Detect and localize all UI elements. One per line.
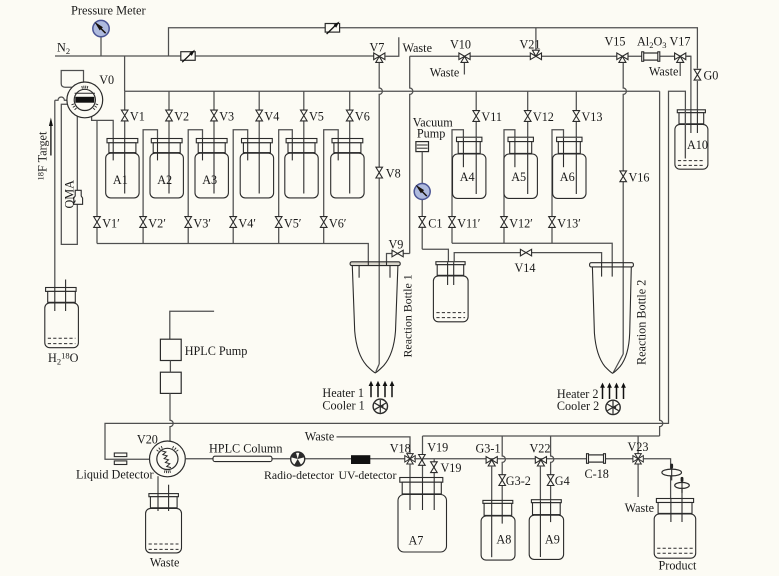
svg-text:Pressure Meter: Pressure Meter	[71, 4, 147, 18]
valve V11	[473, 111, 480, 122]
svg-text:V1: V1	[130, 110, 145, 124]
svg-text:V3: V3	[219, 110, 234, 124]
pressure meter gauge	[100, 37, 102, 56]
svg-text:V11′: V11′	[457, 217, 481, 231]
svg-text:A5: A5	[511, 170, 526, 184]
svg-text:G4: G4	[555, 474, 570, 488]
valve V12	[524, 111, 531, 122]
wire valve rail drop to A7 through V19	[422, 436, 424, 478]
wire bottle A6 tube to valve V13'	[552, 130, 564, 244]
svg-text:HPLC Pump: HPLC Pump	[185, 344, 248, 358]
svg-text:Waste: Waste	[430, 66, 459, 80]
valve V2	[166, 110, 173, 121]
bottle A6	[557, 137, 582, 141]
svg-text:A9: A9	[545, 533, 560, 547]
valve G3-2	[499, 475, 506, 486]
bottle A2	[151, 139, 182, 143]
product bottle	[656, 499, 693, 503]
wire valve V3 drop into bottle A3	[213, 91, 215, 193]
valve V10 with waste vent	[463, 60, 465, 75]
valve V1'	[94, 217, 101, 228]
valve V23 with waste vent	[637, 464, 639, 497]
vacuum pump symbol	[416, 142, 429, 152]
wire bottle A3 tube to valve V3'	[188, 130, 202, 244]
wire bottle A4 tube to valve V4'	[233, 130, 248, 244]
svg-text:V4: V4	[264, 110, 279, 124]
wire valve V13 drop into bottle A6	[575, 91, 577, 194]
valve V18	[405, 456, 415, 462]
valve V3'	[185, 217, 192, 228]
wire bottle A4 tube to valve V11'	[452, 130, 463, 244]
wire V20 to waste bottle	[157, 476, 159, 511]
bottle A4	[457, 137, 482, 141]
wire V' collection manifold to reaction bottle 1	[97, 244, 368, 263]
valve V6	[346, 110, 353, 121]
valve V19 upper	[419, 455, 426, 466]
wire A10 draw tube to V20 feed rail	[105, 91, 685, 459]
wire valve V1 drop into bottle A1	[124, 91, 126, 193]
wire rail drop through G4 to bottle A9	[551, 436, 554, 522]
svg-text:V8: V8	[386, 167, 401, 181]
svg-text:Waste: Waste	[625, 501, 654, 515]
bottle (reagent vial)	[332, 139, 363, 143]
svg-text:V13: V13	[582, 110, 603, 124]
svg-text:V6: V6	[355, 110, 370, 124]
valve V3	[211, 110, 218, 121]
wire V15 stem to V16 and reaction bottle 2	[623, 63, 626, 354]
valve V19 lower	[431, 462, 438, 473]
svg-text:V0: V0	[99, 73, 114, 87]
valve V5	[301, 110, 308, 121]
valve G3-1	[486, 457, 497, 464]
valve V11'	[449, 217, 456, 228]
valve V22	[535, 457, 546, 464]
valve V12'	[501, 217, 508, 228]
waste bottle	[149, 494, 179, 497]
svg-text:A10: A10	[687, 138, 708, 152]
wire V22 to bottle A9	[539, 466, 541, 557]
svg-text:HPLC Column: HPLC Column	[209, 442, 282, 456]
wire vent header line	[410, 55, 691, 57]
svg-text:V20: V20	[137, 432, 158, 446]
valve V9	[392, 250, 403, 257]
reaction bottle 1 vessel	[352, 266, 398, 373]
sterile filter 2 vent	[681, 481, 683, 522]
svg-text:V1′: V1′	[102, 217, 120, 231]
wire trap bottle to V14 to reaction bottle 2	[454, 253, 601, 263]
valve V17 with waste vent	[679, 60, 681, 76]
svg-text:V14: V14	[515, 261, 536, 275]
valve G4	[547, 475, 554, 486]
svg-text:V19: V19	[427, 440, 448, 454]
C-18 cartridge	[588, 455, 604, 462]
wire vacuum line	[421, 152, 423, 250]
wire valve V4 drop into bottle A4	[258, 91, 260, 193]
svg-text:V3′: V3′	[193, 217, 211, 231]
svg-text:V19: V19	[441, 461, 462, 475]
wire V20 to HPLC column line	[185, 458, 404, 460]
svg-text:C1: C1	[428, 216, 442, 230]
valve V13	[573, 111, 580, 122]
wire N2 branch to manifold	[124, 56, 126, 91]
wire V23 top to rail	[637, 436, 639, 454]
wire bottle A5 tube to valve V12'	[504, 130, 515, 244]
svg-text:V5′: V5′	[284, 217, 302, 231]
wire V18 waste line	[337, 437, 411, 454]
svg-text:A8: A8	[496, 533, 511, 547]
valve V15	[617, 53, 628, 60]
rotary valve V20	[150, 441, 186, 477]
bottle A8	[483, 500, 513, 503]
svg-text:G3-2: G3-2	[506, 474, 531, 488]
wire V23 to product bottle	[644, 459, 671, 522]
wire V9 to reaction bottle 1	[387, 254, 410, 263]
svg-text:V5: V5	[309, 110, 324, 124]
bottle H2-18O	[46, 288, 77, 292]
wire valve V2 drop into bottle A2	[168, 91, 170, 193]
wire rail drop through G3-2 to bottle A8	[502, 436, 505, 524]
svg-text:Reaction Bottle 2: Reaction Bottle 2	[635, 280, 649, 365]
HPLC column	[213, 456, 272, 461]
svg-text:V11: V11	[481, 110, 502, 124]
UV-detector symbol	[351, 455, 370, 464]
valve G0	[696, 81, 698, 133]
svg-text:V17: V17	[670, 35, 691, 49]
svg-text:QMA: QMA	[62, 180, 76, 209]
reaction bottle 1 cap	[350, 262, 400, 266]
wire top bypass line	[169, 28, 698, 69]
svg-text:V2: V2	[174, 110, 189, 124]
wire valve V11 drop into bottle A4	[475, 91, 477, 194]
wire HPLC eluent inlet	[170, 311, 214, 339]
wire bottle A5 tube to valve V5'	[279, 130, 293, 244]
wire V18 to bottle A7	[409, 464, 411, 511]
bottle A10	[677, 110, 705, 113]
wire V7 waste vent	[385, 37, 399, 56]
svg-text:V7: V7	[370, 41, 385, 55]
wire N2 supply line	[55, 55, 374, 57]
wire G3-1 to bottle A8	[491, 466, 493, 557]
wire bottle A2 tube to valve V2'	[143, 130, 157, 244]
wire valve V6 drop into bottle A6	[349, 91, 351, 193]
wire vacuum line to trap bottle	[422, 249, 448, 262]
svg-text:V2′: V2′	[148, 217, 166, 231]
svg-text:G3-1: G3-1	[476, 441, 501, 455]
bottle A3	[196, 139, 227, 143]
liquid detector symbol	[114, 453, 127, 457]
wire valve manifold	[125, 90, 660, 92]
svg-text:Cooler 1: Cooler 1	[322, 398, 364, 412]
svg-text:V12: V12	[533, 110, 554, 124]
wire V7 stem through V8 to reaction bottle 1	[379, 63, 382, 364]
radio-detector symbol	[291, 452, 305, 466]
valve V16	[620, 171, 627, 182]
svg-text:V22: V22	[530, 441, 551, 455]
reaction bottle 2 cap	[590, 263, 634, 267]
reaction bottle 2 vessel	[592, 267, 631, 373]
rotary valve V0	[67, 82, 103, 118]
wire valve V12 drop into bottle A5	[527, 91, 529, 194]
svg-text:A7: A7	[409, 533, 424, 547]
svg-text:V4′: V4′	[238, 217, 256, 231]
wire V0 to bottle A1 tube	[92, 116, 114, 160]
svg-text:A6: A6	[560, 170, 575, 184]
valve V14	[520, 249, 531, 256]
wire V0 loop	[61, 71, 83, 88]
svg-text:V10: V10	[450, 38, 471, 52]
svg-text:G0: G0	[704, 69, 719, 83]
valve V1	[121, 110, 128, 121]
flow arrow 18F target	[49, 118, 53, 127]
wire QMA loop	[61, 104, 77, 244]
wire pump interconnect	[169, 361, 171, 373]
wire lower V19 drop to A7	[433, 459, 435, 510]
wire V17 to bottle A10	[686, 56, 691, 133]
wire V11'-V13' manifold to reaction bottle 2	[452, 243, 612, 262]
svg-text:A4: A4	[460, 170, 475, 184]
svg-text:V15: V15	[605, 35, 626, 49]
valve V4	[256, 110, 263, 121]
svg-text:UV-detector: UV-detector	[339, 468, 397, 482]
svg-text:V16: V16	[629, 171, 650, 185]
valve C1	[419, 217, 426, 228]
svg-text:A1: A1	[113, 173, 128, 187]
wire pump outlet to V20	[170, 393, 173, 442]
svg-text:Pump: Pump	[417, 126, 445, 140]
bottle (reagent vial)	[286, 139, 317, 143]
svg-text:Cooler 2: Cooler 2	[557, 399, 599, 413]
reaction bottle 1 internal tubes	[358, 266, 360, 278]
svg-text:Waste: Waste	[150, 556, 179, 570]
svg-text:V9: V9	[389, 238, 404, 252]
bottle A9	[531, 500, 561, 503]
wire V9 riser	[410, 56, 413, 253]
svg-text:Liquid Detector: Liquid Detector	[76, 467, 154, 481]
valve V2'	[140, 217, 147, 228]
HPLC pump heads	[160, 339, 181, 360]
bottle A5	[508, 137, 533, 141]
svg-text:V23: V23	[628, 440, 649, 454]
svg-text:Radio-detector: Radio-detector	[264, 468, 334, 482]
wire right rail from manifold to bottom valve rail	[660, 91, 663, 436]
vacuum gauge	[414, 184, 430, 200]
Al2O3 cartridge	[643, 53, 658, 60]
svg-text:Waste: Waste	[649, 64, 678, 78]
wire bottle A6 tube to valve V6'	[324, 130, 339, 244]
bottle A7	[400, 478, 443, 483]
svg-text:A3: A3	[202, 173, 217, 187]
wire target water line from H2-18O to V0	[55, 97, 68, 100]
valve V6'	[320, 217, 327, 228]
bottle A1	[107, 139, 138, 143]
svg-text:Waste: Waste	[305, 429, 334, 443]
wire branch to valve V1'	[96, 120, 98, 243]
QMA cartridge symbol	[74, 190, 83, 204]
bottle (reagent vial)	[242, 139, 273, 143]
wire valve line to bottles	[414, 458, 633, 460]
svg-text:V13′: V13′	[557, 217, 581, 231]
regulator on N2 line	[181, 52, 195, 61]
svg-text:Reaction Bottle 1: Reaction Bottle 1	[401, 274, 415, 357]
valve V5'	[275, 217, 282, 228]
valve V4'	[230, 217, 237, 228]
svg-text:V21: V21	[520, 38, 541, 52]
sterile filter 1	[662, 469, 682, 476]
svg-text:A2: A2	[157, 173, 172, 187]
valve V8	[376, 167, 383, 178]
valve V13'	[549, 217, 556, 228]
svg-text:Waste: Waste	[403, 41, 432, 55]
valve V21	[535, 28, 537, 51]
svg-text:V12′: V12′	[509, 217, 533, 231]
trap bottle	[436, 262, 465, 265]
valve V7	[374, 53, 385, 60]
regulator on top bypass line	[325, 24, 339, 33]
svg-text:Product: Product	[659, 558, 698, 572]
svg-text:V6′: V6′	[329, 217, 347, 231]
wire valve V5 drop into bottle A5	[303, 91, 305, 193]
svg-text:V18: V18	[390, 441, 411, 455]
reaction bottle 2 internal tubes	[601, 263, 603, 277]
svg-text:C-18: C-18	[585, 467, 609, 481]
